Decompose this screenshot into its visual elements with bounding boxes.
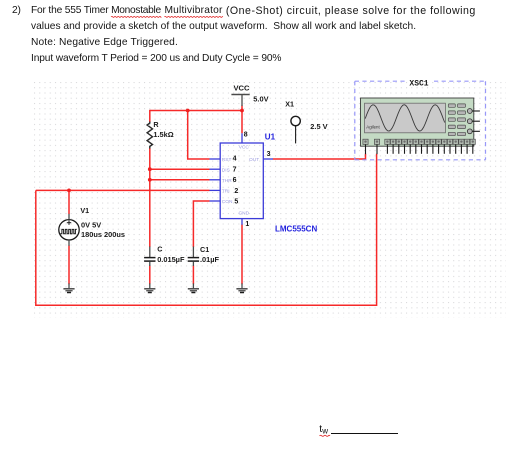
svg-text:6: 6 [233, 177, 237, 184]
oscilloscope terminal 17 [465, 139, 470, 154]
oscilloscope terminal 14 [447, 139, 452, 154]
oscilloscope terminal 5 [396, 139, 401, 154]
oscilloscope terminal 12 [436, 139, 441, 154]
oscilloscope terminal 7 [408, 139, 413, 154]
svg-text:4: 4 [233, 156, 237, 163]
svg-text:X1: X1 [285, 99, 294, 108]
svg-text:GND: GND [238, 211, 249, 217]
pin 1 stub [241, 219, 243, 225]
oscilloscope body [361, 98, 474, 146]
svg-text:180us 200us: 180us 200us [81, 230, 125, 239]
svg-text:2.5 V: 2.5 V [310, 122, 327, 131]
oscilloscope terminal 6 [402, 139, 407, 154]
oscilloscope screen [365, 103, 446, 133]
svg-text:V1: V1 [80, 206, 89, 215]
pin CON stub [210, 200, 221, 202]
svg-text:.01µF: .01µF [200, 255, 220, 264]
svg-text:5: 5 [234, 198, 238, 205]
schematic grid dots [34, 82, 506, 318]
oscilloscope knob 3 [467, 129, 472, 134]
VCC power symbol [231, 84, 250, 106]
wire DIS [150, 168, 210, 170]
wire OUT to scope channel1 [273, 154, 366, 159]
junction VCC rail [240, 109, 244, 113]
svg-text:OUT: OUT [249, 157, 259, 163]
ground below V1 [63, 283, 74, 292]
pin 8 stub [241, 133, 243, 143]
wire left vertical [35, 190, 37, 306]
svg-text:C: C [157, 245, 162, 254]
problem statement line 2 [31, 21, 416, 32]
svg-text:2: 2 [234, 188, 238, 195]
wire C1 bottom [192, 266, 194, 285]
junction DIS [148, 167, 152, 171]
wire R top [149, 110, 151, 122]
svg-text:U1: U1 [265, 132, 276, 141]
ground below C1 [188, 283, 199, 292]
svg-text:THR: THR [222, 178, 232, 184]
oscilloscope knob 1 [467, 109, 472, 114]
problem statement line 4 [31, 53, 281, 64]
wire V1 bottom to ground [68, 246, 70, 285]
wire CON to C1 [193, 201, 209, 247]
oscilloscope terminal 10 [425, 139, 430, 154]
svg-text:0.015µF: 0.015µF [157, 255, 185, 264]
oscilloscope terminal 16 [459, 139, 464, 154]
oscilloscope sine trace [365, 105, 445, 131]
problem statement line 1 [12, 5, 21, 16]
oscilloscope terminal 11 [430, 139, 435, 154]
svg-text:VCC: VCC [239, 144, 250, 150]
wire R bottom to capacitor C [149, 148, 151, 247]
pin THR stub [210, 179, 221, 181]
svg-text:TRI: TRI [222, 189, 230, 195]
answer blank line [331, 433, 398, 434]
svg-text:0V 5V: 0V 5V [81, 221, 101, 230]
oscilloscope XSC1 selection box [355, 81, 486, 160]
svg-text:5.0V: 5.0V [253, 95, 268, 104]
pin OUT stub [263, 158, 273, 160]
svg-text:1.5kΩ: 1.5kΩ [153, 130, 173, 139]
svg-text:LMC555CN: LMC555CN [275, 224, 317, 233]
ground below pin 1 [236, 283, 247, 292]
resistor R1 zigzag [147, 122, 152, 149]
wire VCC vertical to pin 8 [241, 106, 243, 134]
svg-text:CON: CON [222, 199, 233, 205]
svg-text:7: 7 [233, 167, 237, 174]
svg-text:RST: RST [222, 157, 232, 163]
oscilloscope knob 2 [467, 119, 472, 124]
oscilloscope terminal 4 [391, 139, 396, 154]
junction V1 [67, 189, 71, 193]
svg-text:1: 1 [245, 221, 249, 228]
oscilloscope terminal 15 [453, 139, 458, 154]
oscilloscope terminal 2 [374, 139, 379, 154]
wire TRI long [36, 189, 210, 191]
wire C bottom [149, 266, 151, 285]
svg-text:3: 3 [267, 151, 271, 158]
wire V1 top [68, 190, 70, 214]
wire VCC rail horizontal [150, 110, 242, 112]
op-amp U1 555 timer body [220, 143, 263, 219]
pin TRI stub [210, 189, 221, 191]
oscilloscope terminal 9 [419, 139, 424, 154]
ground below C [144, 283, 155, 292]
svg-text:C1: C1 [200, 245, 209, 254]
wire pin1 to ground [241, 225, 243, 285]
junction THR [148, 178, 152, 182]
wire bottom rail [36, 304, 377, 306]
probe X1 [291, 116, 300, 143]
oscilloscope terminal 13 [442, 139, 447, 154]
label tw [319, 424, 328, 437]
wire THR [150, 179, 210, 181]
pin RST stub [210, 158, 221, 160]
svg-text:Agilent: Agilent [366, 125, 380, 130]
oscilloscope buttons [448, 104, 465, 136]
problem statement line 3 [31, 37, 178, 48]
spellcheck squiggle Multivibrator [165, 16, 223, 17]
junction RST rail [186, 109, 190, 113]
oscilloscope terminal 1 [363, 139, 368, 154]
oscilloscope terminal 8 [413, 139, 418, 154]
svg-text:XSC1: XSC1 [409, 79, 428, 88]
capacitor C [144, 247, 155, 267]
red wavy spellcheck under tw [320, 435, 331, 436]
capacitor C1 [188, 247, 199, 267]
svg-text:R: R [153, 120, 159, 129]
source V1 [59, 214, 79, 246]
oscilloscope terminal 18 [470, 139, 475, 154]
spellcheck squiggle Monostable [111, 16, 161, 17]
pin DIS stub [210, 168, 221, 170]
svg-text:VCC: VCC [233, 84, 250, 93]
oscilloscope terminal 3 [385, 139, 390, 154]
wire scope channel2 vertical [376, 154, 378, 306]
svg-text:DIS: DIS [222, 168, 230, 174]
svg-text:8: 8 [244, 132, 248, 139]
wire RST vertical from rail [188, 111, 210, 160]
